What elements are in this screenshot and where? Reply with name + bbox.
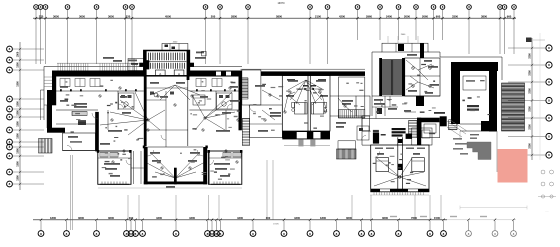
mid balcony comb xyxy=(337,149,357,159)
svg-text:19370: 19370 xyxy=(273,224,279,226)
svg-text:3600: 3600 xyxy=(108,216,114,220)
svg-text:A: A xyxy=(159,72,161,76)
right lower room with bed xyxy=(421,122,440,138)
top dimension line xyxy=(33,17,516,19)
left grid bubbles xyxy=(7,46,13,52)
svg-text:200: 200 xyxy=(211,15,216,19)
apartment X wiring xyxy=(377,158,400,177)
svg-text:1500: 1500 xyxy=(17,133,20,139)
left block left wall xyxy=(52,71,56,106)
svg-text:A: A xyxy=(178,72,180,76)
mid washer room xyxy=(339,77,365,118)
right lower symbols xyxy=(541,170,545,174)
mid connector comb xyxy=(241,78,249,99)
apartment bottom wall xyxy=(371,189,429,192)
mid connector rooms xyxy=(242,70,261,105)
svg-text:4300: 4300 xyxy=(189,216,195,220)
svg-text:1500: 1500 xyxy=(434,216,440,220)
svg-text:1500: 1500 xyxy=(17,161,20,167)
door arcs left block xyxy=(92,113,98,119)
bottom dimension line xyxy=(33,219,447,221)
svg-text:3600: 3600 xyxy=(78,216,84,220)
bold label cluster xyxy=(392,128,406,130)
mid block bed left xyxy=(295,103,306,115)
mid block room xyxy=(282,76,330,132)
left grid lines xyxy=(13,48,44,50)
bottom grid ticks xyxy=(40,221,42,230)
left block top wall xyxy=(52,71,144,77)
stair black blob xyxy=(144,60,149,69)
mid block bottom wall xyxy=(282,131,330,139)
top right corner mark xyxy=(526,38,532,43)
lamp symbols left block xyxy=(99,95,101,97)
right grid lines xyxy=(508,47,546,49)
svg-text:300: 300 xyxy=(266,216,271,220)
svg-text:220: 220 xyxy=(126,15,131,19)
left block roof outline xyxy=(44,66,142,68)
top grid lines xyxy=(35,9,37,64)
svg-text:3300: 3300 xyxy=(529,143,532,149)
mid right connector xyxy=(356,96,370,116)
right apartment outline xyxy=(371,145,429,192)
right tower roof line xyxy=(372,51,382,53)
core hall partitions xyxy=(165,91,167,147)
svg-text:1500: 1500 xyxy=(17,175,20,181)
right dimension line xyxy=(531,38,533,160)
right wing top wall xyxy=(451,62,498,71)
right unit wiring fan xyxy=(205,100,230,118)
right mid room xyxy=(362,116,370,131)
window sill left wall xyxy=(46,105,48,128)
svg-text:1500: 1500 xyxy=(17,148,20,154)
apartment expansion joint xyxy=(397,137,399,189)
left lower room xyxy=(63,133,96,151)
corridor lines right xyxy=(330,95,356,97)
apartment door arc xyxy=(375,151,380,157)
svg-text:1800: 1800 xyxy=(50,216,56,220)
mid balcony below xyxy=(284,145,330,147)
svg-text:2400: 2400 xyxy=(386,15,392,19)
mid wiring xyxy=(288,95,300,105)
stair tower outline xyxy=(144,51,190,76)
mid block bed right xyxy=(313,103,324,115)
right stair shaft walls xyxy=(379,58,382,96)
svg-text:1500: 1500 xyxy=(17,110,20,116)
mid block labels xyxy=(270,112,281,114)
svg-text:1500: 1500 xyxy=(17,51,20,57)
bottom grid bubbles xyxy=(38,231,44,237)
svg-text:4300: 4300 xyxy=(237,216,243,220)
svg-text:1500: 1500 xyxy=(17,121,20,127)
top grid bubbles xyxy=(34,5,39,10)
right tower top rooms xyxy=(382,43,428,52)
apartment right rooms top xyxy=(412,128,432,145)
bottom right faint texts xyxy=(390,216,397,217)
right stair treads xyxy=(382,59,402,61)
bottom rooms windows xyxy=(100,183,129,185)
bottom long grid lines xyxy=(70,155,72,230)
left balcony hatch xyxy=(39,139,53,154)
vertical line below xyxy=(496,131,498,172)
svg-text:300: 300 xyxy=(129,216,134,220)
mid joint arrows xyxy=(296,88,307,90)
left block right wall xyxy=(239,71,242,131)
tower side labels xyxy=(128,60,137,62)
svg-text:3300: 3300 xyxy=(529,106,532,112)
right upper labels xyxy=(407,54,417,56)
mid left stair comb xyxy=(242,119,249,146)
below wing texts xyxy=(470,134,479,135)
stair treads upper xyxy=(147,53,149,61)
svg-text:1500: 1500 xyxy=(17,81,20,87)
appliance hatch left xyxy=(72,112,87,116)
apartment top labels xyxy=(375,148,383,150)
right apartment top strip xyxy=(362,130,371,132)
corridor lamp xyxy=(344,105,346,107)
left unit bathroom xyxy=(119,93,135,109)
mid lamp symbols xyxy=(269,94,271,96)
svg-text:4200: 4200 xyxy=(339,15,345,19)
right corridor line2 xyxy=(362,118,417,120)
left block labels xyxy=(74,103,87,105)
svg-text:1500: 1500 xyxy=(17,101,20,107)
right wing small labels xyxy=(453,138,462,140)
faint scale line xyxy=(460,207,527,209)
black bits right of labels xyxy=(406,134,412,139)
right wing roof outline xyxy=(440,56,502,58)
svg-text:3300: 3300 xyxy=(529,70,532,76)
svg-text:2060: 2060 xyxy=(422,15,428,19)
svg-text:4500: 4500 xyxy=(165,15,171,19)
right lower comb xyxy=(409,121,418,138)
left unit wiring fan xyxy=(120,100,148,120)
distribution boxes A xyxy=(155,70,165,76)
svg-text:3650: 3650 xyxy=(79,15,85,19)
left unit partitions xyxy=(56,90,144,92)
svg-text:3300: 3300 xyxy=(529,53,532,59)
right rooms upper symbols xyxy=(412,67,415,70)
svg-text:3600: 3600 xyxy=(382,216,388,220)
mid corridor top wall xyxy=(261,71,365,76)
svg-text:3300: 3300 xyxy=(452,15,458,19)
room left of tower xyxy=(128,59,144,71)
right wing right wall xyxy=(489,62,497,132)
top window combs xyxy=(57,62,140,64)
bottom window combs xyxy=(101,182,103,185)
interior detail fuzz xyxy=(110,80,113,81)
svg-text:4300: 4300 xyxy=(156,216,162,220)
svg-text:19370: 19370 xyxy=(278,2,286,5)
svg-text:370: 370 xyxy=(39,15,44,19)
corner window comb xyxy=(44,76,52,78)
bottom room closets xyxy=(100,153,108,158)
svg-text:2100: 2100 xyxy=(315,15,321,19)
mid expansion joint xyxy=(307,76,309,132)
right lower heavy walls xyxy=(417,118,421,146)
left unit tower wall xyxy=(144,51,147,147)
left unit wall vertical xyxy=(95,112,99,151)
svg-text:3650: 3650 xyxy=(53,15,59,19)
bottom rooms row xyxy=(97,150,99,153)
unit top closets xyxy=(60,79,70,87)
black wall blob xyxy=(481,121,497,131)
apartment bottom combs xyxy=(373,192,375,195)
right rooms upper xyxy=(405,58,440,96)
pink square xyxy=(498,149,528,183)
svg-text:2800: 2800 xyxy=(231,15,237,19)
svg-text:1800: 1800 xyxy=(320,216,326,220)
right wing left wall xyxy=(451,62,460,124)
right corridor below stair xyxy=(372,95,440,97)
apartment beds xyxy=(376,158,389,172)
right unit tower wall xyxy=(187,51,190,81)
svg-text:960: 960 xyxy=(507,15,512,19)
stair treads lower xyxy=(147,63,149,69)
label ZALB xyxy=(434,112,445,114)
small stair icon xyxy=(449,120,458,130)
svg-text:3300: 3300 xyxy=(529,88,532,94)
AD shaft blocks xyxy=(373,133,379,144)
left dimension line xyxy=(19,42,21,190)
wall socket ticks xyxy=(60,89,62,91)
stair tower top room xyxy=(162,44,188,51)
center X wiring xyxy=(150,152,175,178)
right grid bubbles xyxy=(546,45,552,51)
diagonal hatch area xyxy=(447,121,466,134)
svg-text:1500: 1500 xyxy=(17,62,20,68)
svg-text:3300: 3300 xyxy=(529,124,532,130)
right unit furniture xyxy=(193,95,205,105)
svg-text:3650: 3650 xyxy=(108,15,114,19)
bottom center unit xyxy=(144,147,148,184)
svg-text:2960: 2960 xyxy=(366,15,372,19)
right wing interior lines xyxy=(460,123,489,125)
bottom gap windows xyxy=(133,151,135,184)
right wing labels xyxy=(467,105,479,107)
svg-text:3600: 3600 xyxy=(346,216,352,220)
bottom room inner lines xyxy=(98,157,131,159)
svg-text:2000: 2000 xyxy=(404,15,410,19)
svg-text:900: 900 xyxy=(436,15,441,19)
mid rooms lower xyxy=(250,105,283,138)
svg-text:5800: 5800 xyxy=(276,15,282,19)
stair side boxes xyxy=(139,63,144,67)
svg-text:7600: 7600 xyxy=(411,216,417,220)
right tower top ticks xyxy=(387,36,389,43)
upper wiring xyxy=(150,85,175,95)
gray stair mass xyxy=(467,142,491,160)
right unit partitions xyxy=(189,90,238,92)
mid room fan xyxy=(290,80,306,100)
mid corridor roof line xyxy=(241,68,366,70)
right balcony hatch strip xyxy=(502,83,525,131)
svg-text:3800: 3800 xyxy=(481,15,487,19)
right unit bathroom xyxy=(217,93,233,109)
svg-text:4300: 4300 xyxy=(294,216,300,220)
